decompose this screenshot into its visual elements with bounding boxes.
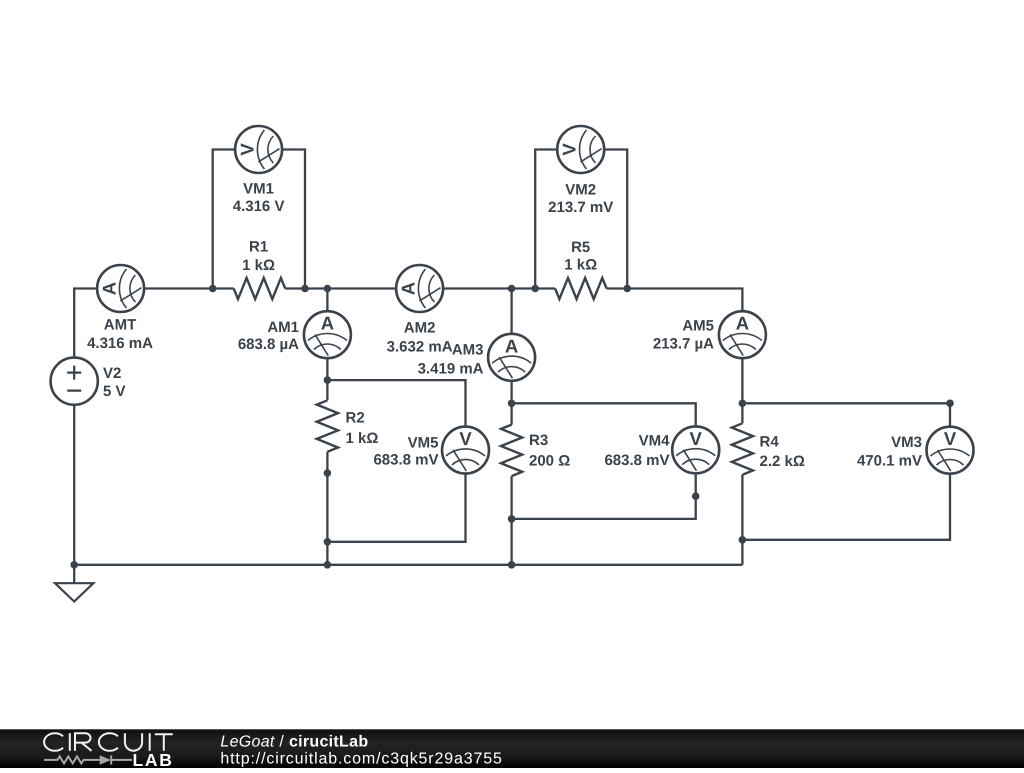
svg-text:470.1 mV: 470.1 mV [857, 453, 922, 470]
svg-text:http://circuitlab.com/c3qk5r29: http://circuitlab.com/c3qk5r29a3755 [220, 750, 502, 767]
svg-text:VM1: VM1 [243, 181, 274, 198]
svg-text:1 kΩ: 1 kΩ [242, 257, 275, 274]
svg-text:683.8 mV: 683.8 mV [373, 451, 438, 468]
svg-text:AM5: AM5 [682, 317, 714, 334]
svg-text:LAB: LAB [133, 750, 174, 768]
svg-text:683.8 µA: 683.8 µA [238, 336, 299, 353]
svg-text:R5: R5 [571, 239, 590, 256]
svg-text:2.2 kΩ: 2.2 kΩ [760, 453, 805, 470]
svg-text:1 kΩ: 1 kΩ [346, 430, 379, 447]
svg-text:AM1: AM1 [267, 319, 299, 336]
svg-text:213.7 mV: 213.7 mV [548, 199, 613, 216]
svg-text:5 V: 5 V [103, 383, 126, 400]
svg-text:683.8 mV: 683.8 mV [604, 452, 669, 469]
svg-text:4.316 mA: 4.316 mA [87, 335, 153, 352]
svg-text:V: V [690, 428, 703, 449]
svg-text:V: V [459, 428, 472, 449]
svg-text:3.632 mA: 3.632 mA [387, 338, 453, 355]
svg-text:VM4: VM4 [639, 432, 671, 449]
svg-text:AMT: AMT [104, 317, 137, 334]
svg-text:A: A [398, 282, 419, 295]
svg-text:R2: R2 [346, 410, 365, 427]
svg-text:1 kΩ: 1 kΩ [564, 257, 597, 274]
svg-text:A: A [505, 335, 518, 356]
svg-text:R1: R1 [249, 239, 268, 256]
svg-text:A: A [99, 282, 120, 295]
svg-text:A: A [736, 313, 749, 334]
svg-text:V2: V2 [103, 365, 121, 382]
svg-text:V: V [944, 428, 957, 449]
svg-text:R4: R4 [760, 433, 780, 450]
svg-text:AM3: AM3 [452, 341, 484, 358]
svg-text:VM5: VM5 [408, 434, 439, 451]
svg-text:R3: R3 [529, 432, 548, 449]
svg-text:A: A [321, 313, 334, 334]
svg-text:V: V [559, 143, 580, 156]
svg-text:V: V [237, 143, 258, 156]
svg-text:200 Ω: 200 Ω [529, 452, 570, 469]
svg-text:LeGoat / cirucitLab: LeGoat / cirucitLab [220, 734, 368, 751]
svg-text:213.7 µA: 213.7 µA [653, 335, 714, 352]
svg-text:AM2: AM2 [404, 319, 436, 336]
svg-text:4.316 V: 4.316 V [233, 198, 285, 215]
svg-text:VM3: VM3 [891, 434, 922, 451]
svg-text:VM2: VM2 [565, 181, 596, 198]
svg-text:3.419 mA: 3.419 mA [418, 360, 484, 377]
